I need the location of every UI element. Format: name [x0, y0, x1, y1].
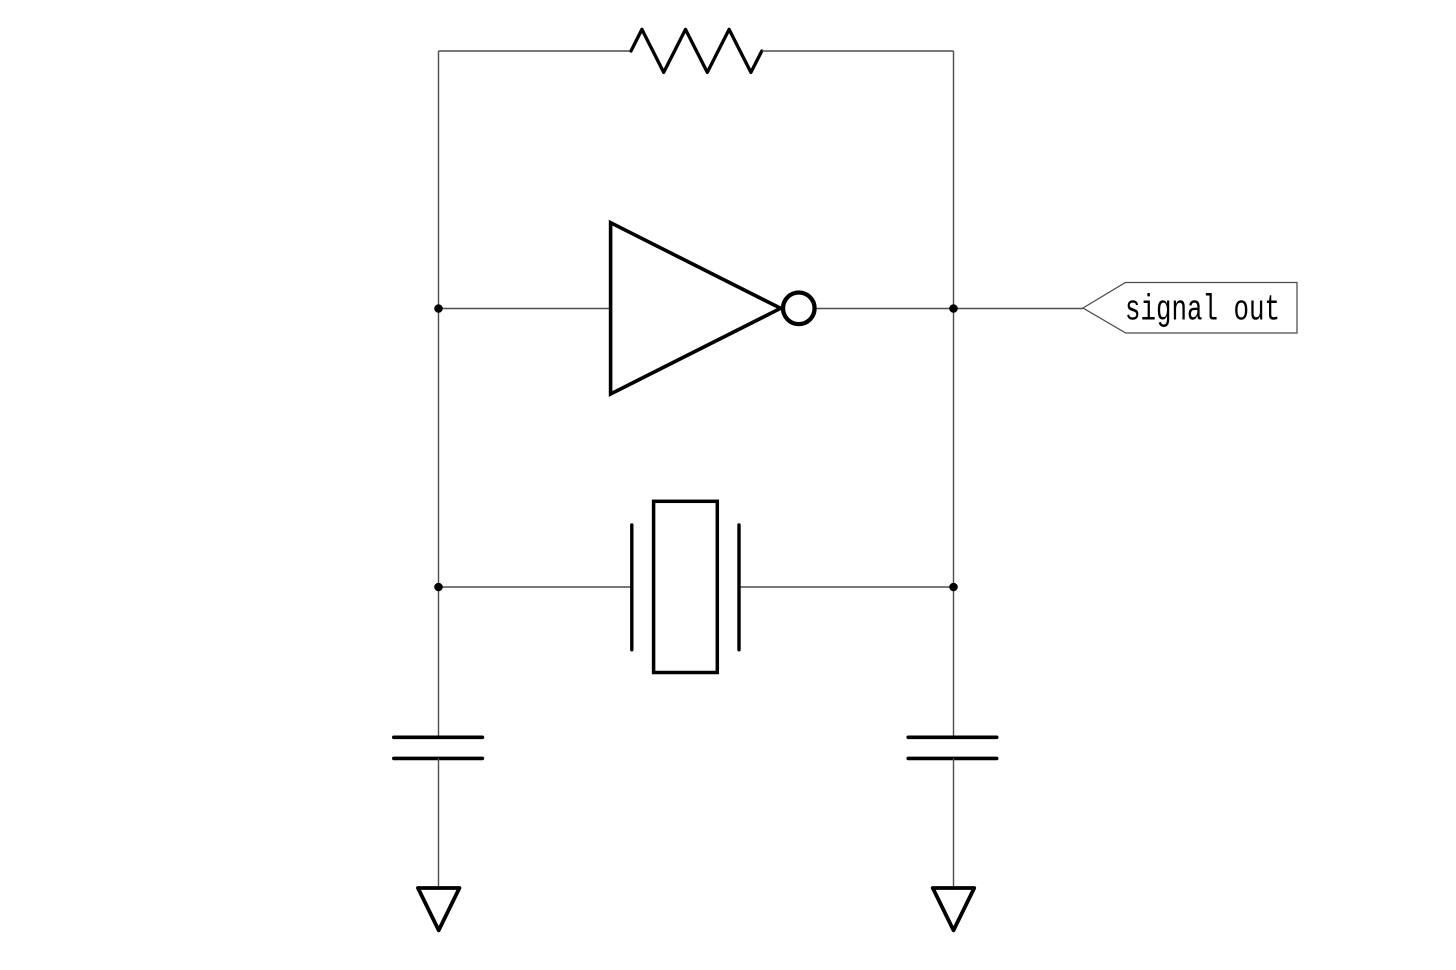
wire inverter input [439, 308, 612, 310]
node output junction [949, 304, 958, 313]
node crystal left junction [434, 583, 443, 592]
crystal Y1 left electrode [630, 525, 633, 650]
wire inverter output [816, 308, 1083, 310]
wire crystal right [739, 586, 954, 588]
node crystal right junction [949, 583, 958, 592]
crystal Y1 body [654, 501, 718, 672]
ground left [418, 888, 460, 930]
ground right [933, 888, 975, 930]
node input junction [434, 304, 443, 313]
wire top horizontal left segment [439, 50, 632, 52]
wire right vertical [953, 51, 955, 737]
node signal out label outline [1083, 283, 1297, 334]
op-amp U1 inverter triangle [611, 223, 781, 394]
capacitor C1 top plate [394, 735, 483, 739]
inverter bubble [783, 293, 815, 325]
wire C2 to ground [953, 758, 955, 886]
capacitor C2 bottom plate [908, 757, 997, 761]
resistor R1 [631, 29, 762, 72]
wire crystal left [439, 586, 632, 588]
wire left vertical [438, 51, 440, 737]
wire C1 to ground [438, 758, 440, 886]
capacitor C1 bottom plate [394, 757, 483, 761]
capacitor C2 top plate [908, 735, 997, 739]
crystal Y1 right electrode [737, 525, 740, 650]
svg-text:signal out: signal out [1125, 290, 1280, 331]
wire top horizontal right segment [762, 50, 954, 52]
